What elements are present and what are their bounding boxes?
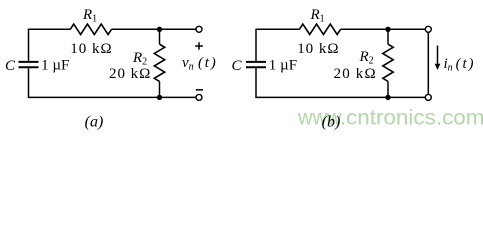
wire from R2 to bottom node (a) — [159, 81, 161, 97]
junction dot bottom node (a) — [157, 95, 162, 100]
svg-text:(b): (b) — [322, 114, 341, 131]
svg-text:(a): (a) — [85, 114, 104, 131]
svg-text:1 µF: 1 µF — [269, 58, 297, 74]
junction dot bottom node (b) — [385, 95, 390, 100]
svg-text:vn(t): vn(t) — [182, 55, 216, 72]
svg-text:in(t): in(t) — [444, 56, 474, 73]
svg-text:20 kΩ: 20 kΩ — [334, 66, 376, 82]
wire from top node down to R2 (b) — [387, 29, 389, 44]
wire bottom (a) — [29, 96, 197, 98]
wire from top node down to R2 (a) — [159, 29, 161, 44]
wire top-left segment (a) — [29, 28, 71, 30]
resistor R2 (b) zigzag — [383, 44, 393, 81]
svg-text:1 µF: 1 µF — [41, 58, 69, 74]
svg-text:R2: R2 — [359, 49, 374, 67]
resistor R1 (b) zigzag — [299, 24, 340, 34]
capacitor C (b) plates — [246, 62, 266, 67]
svg-text:10 kΩ: 10 kΩ — [70, 41, 111, 57]
current arrow head (b) — [435, 64, 441, 70]
svg-text:R1: R1 — [82, 7, 97, 25]
wire left vertical lower (a) — [28, 68, 30, 98]
wire top-left segment (b) — [256, 28, 299, 30]
wire top-right segment (b) — [341, 28, 426, 30]
terminal circle top (a) — [196, 26, 202, 32]
terminal circle bottom (a) — [196, 94, 202, 100]
wire right vertical between terminals (b) — [427, 32, 429, 95]
wire bottom (b) — [256, 96, 425, 98]
svg-text:C: C — [5, 58, 16, 74]
terminal circle bottom (b) — [425, 94, 431, 100]
wire left vertical upper (a) — [28, 29, 30, 61]
wire from R2 to bottom node (b) — [387, 81, 389, 97]
resistor R1 (a) zigzag — [70, 24, 111, 34]
junction dot top node (a) — [157, 27, 162, 32]
minus sign (a) — [196, 89, 203, 91]
junction dot top node (b) — [385, 27, 390, 32]
wire left vertical upper (b) — [255, 29, 257, 61]
capacitor C (a) plates — [19, 62, 39, 67]
svg-text:10 kΩ: 10 kΩ — [297, 41, 338, 57]
wire left vertical lower (b) — [255, 68, 257, 98]
current arrow shaft (b) — [437, 46, 439, 66]
plus sign (a) — [195, 42, 203, 50]
resistor R2 (a) zigzag — [154, 44, 164, 81]
svg-text:20 kΩ: 20 kΩ — [109, 66, 150, 82]
svg-text:R1: R1 — [310, 7, 325, 25]
terminal circle top (b) — [425, 26, 431, 32]
svg-text:C: C — [232, 58, 243, 74]
wire top-right segment (a) — [112, 28, 197, 30]
